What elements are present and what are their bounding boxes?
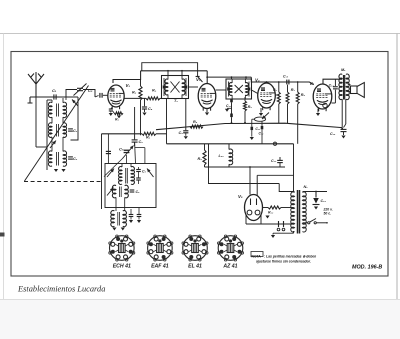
- wire inner left leg: [107, 134, 109, 164]
- capacitor C7a padder: [106, 150, 111, 152]
- wire antenna lead: [35, 84, 37, 97]
- core L3/L4: [56, 124, 58, 137]
- svg-text:ajustarse firmes sin condensad: ajustarse firmes sin condensador.: [256, 260, 311, 264]
- wire T2 right to V3 grid: [252, 90, 258, 94]
- ground stub detector: [227, 107, 232, 109]
- wire T2 riser: [231, 77, 233, 79]
- wire mains lower: [273, 232, 294, 234]
- capacitor C11 pot: [251, 119, 253, 127]
- cathode circle V4: [323, 103, 327, 107]
- wire antenna down lead: [35, 97, 37, 147]
- svg-text:R₅: R₅: [248, 105, 253, 109]
- tube V1 ECH41: [108, 85, 124, 107]
- plug prong 2: [283, 221, 285, 227]
- wire V4 plate top line: [323, 79, 342, 84]
- svg-text:Establecimientos Lucarda: Establecimientos Lucarda: [17, 285, 105, 294]
- IF transformer T2: [226, 79, 252, 99]
- resistor R8 screen feed: [297, 82, 299, 92]
- svg-text:C₃: C₃: [73, 129, 78, 133]
- scan page right edge line: [396, 34, 398, 300]
- svg-text:C₁: C₁: [52, 88, 57, 93]
- band switch contact: [72, 100, 78, 107]
- wire HT feed down: [293, 144, 295, 192]
- capacitor C14: [315, 192, 317, 198]
- wires oscillator: [101, 134, 103, 209]
- switch S1: [303, 222, 308, 224]
- capacitor C14a: [334, 79, 336, 86]
- ground below V4: [317, 109, 319, 113]
- antenna terminal: [28, 97, 33, 103]
- svg-text:EAF 41: EAF 41: [151, 264, 169, 270]
- capacitor C5: [144, 98, 146, 106]
- wire supply mid rail: [167, 143, 294, 145]
- svg-text:C₁₅: C₁₅: [283, 75, 289, 79]
- capacitor C6: [132, 139, 138, 141]
- dashed gang diagonal to C2: [25, 86, 89, 182]
- capacitor C4: [68, 156, 73, 158]
- note text: [251, 252, 263, 257]
- junction dots detector: [231, 122, 233, 124]
- wire filter line: [205, 166, 286, 168]
- power transformer T4: [291, 192, 295, 232]
- capacitor Cg grid series: [99, 93, 100, 98]
- osc switch arrow row2: [107, 188, 114, 196]
- ground below L5: [54, 169, 58, 172]
- coil L2: [63, 102, 67, 117]
- capacitor C12: [261, 121, 263, 126]
- coil L4: [63, 123, 67, 137]
- wire V1 plate line: [113, 71, 141, 83]
- wire V3 plate right: [276, 94, 279, 96]
- svg-text:C₁₀: C₁₀: [226, 104, 232, 108]
- scan page bottom area: [0, 300, 400, 339]
- capacitor C16: [341, 128, 347, 130]
- resistor R1 cathode: [114, 112, 123, 115]
- gang diagonal to C7: [104, 159, 123, 177]
- wires mains: [246, 223, 293, 225]
- capacitor C1: [53, 94, 55, 99]
- capacitor C8a: [136, 169, 141, 171]
- svg-text:R₈: R₈: [301, 93, 306, 97]
- wire plate feed upper: [257, 174, 293, 176]
- tube socket AZ41: [218, 236, 243, 261]
- capacitor C8b: [136, 177, 141, 179]
- core L11/L12: [117, 212, 119, 226]
- ground below L11: [112, 228, 116, 231]
- resistor R7 grid leak: [287, 85, 289, 92]
- svg-text:C₉: C₉: [136, 190, 141, 194]
- wire R2 bottom: [140, 100, 142, 135]
- capacitor C7 trimmer: [124, 149, 130, 151]
- wire T2 left to V2: [216, 89, 226, 91]
- coil L1: [48, 102, 52, 117]
- svg-text:V₁: V₁: [126, 83, 131, 88]
- resistor R5: [244, 97, 246, 101]
- wire V1 bottom to osc: [134, 107, 136, 139]
- V5 filament circles: [247, 210, 252, 215]
- svg-text:C₁₆: C₁₆: [330, 132, 336, 136]
- ground below V2: [206, 109, 208, 113]
- junction filter: [249, 166, 251, 168]
- tube socket EL41: [183, 236, 208, 261]
- svg-text:V₅: V₅: [238, 194, 243, 199]
- resistor R10: [263, 207, 269, 209]
- svg-text:T₁: T₁: [174, 99, 178, 103]
- scan left margin line: [3, 34, 5, 300]
- svg-text:M₁: M₁: [341, 68, 346, 72]
- band switch arrow (antenna): [50, 141, 56, 149]
- core L9/L10: [119, 187, 121, 198]
- capacitor C9pad2: [137, 214, 142, 216]
- svg-text:R₆: R₆: [273, 88, 278, 92]
- ground V5 side: [265, 216, 269, 219]
- svg-text:R₉: R₉: [198, 157, 203, 161]
- wire C6 to box: [134, 142, 137, 163]
- svg-text:C₅: C₅: [148, 107, 153, 111]
- IF transformer T1: [162, 76, 189, 99]
- resistor R3: [142, 132, 156, 135]
- svg-text:L₁₀: L₁₀: [219, 154, 225, 158]
- core L5/L6: [56, 152, 58, 166]
- coil L5: [48, 151, 52, 166]
- svg-text:AZ 41: AZ 41: [222, 264, 237, 270]
- svg-text:C₈: C₈: [142, 170, 147, 174]
- wire V3 riser: [266, 82, 268, 83]
- wire B+ top rail: [141, 70, 208, 72]
- volume pot P1: [254, 117, 265, 121]
- svg-text:R₃: R₃: [146, 136, 151, 140]
- svg-text:ECH 41: ECH 41: [113, 264, 131, 270]
- svg-text:V₂: V₂: [196, 77, 201, 82]
- wire AVC rail: [156, 123, 342, 130]
- junction: [341, 128, 343, 130]
- core L7/L8: [125, 168, 127, 184]
- ground below L12: [121, 228, 125, 231]
- svg-text:C₂: C₂: [88, 88, 93, 93]
- wire rail step 2: [206, 71, 208, 84]
- capacitor C10a series: [230, 99, 233, 102]
- scan ink blob left edge: [0, 233, 5, 237]
- ground mains: [272, 233, 274, 234]
- svg-text:NOTA: NOTA: [252, 255, 262, 259]
- capacitor C9: [185, 127, 187, 130]
- svg-text:MOD. 196-B: MOD. 196-B: [352, 265, 382, 271]
- wire C7 drop: [126, 155, 128, 164]
- coil L10: [125, 185, 129, 198]
- choke L13: [229, 149, 233, 165]
- wire V1 grid-cap over line: [142, 63, 198, 76]
- svg-text:R₆: R₆: [193, 120, 198, 124]
- variable capacitor C2: [77, 87, 83, 89]
- resistor R9: [204, 144, 206, 150]
- ground below L6: [61, 169, 65, 172]
- plug prong 1: [278, 221, 280, 227]
- svg-text:: Las perillas marcadas ⊕ debe: : Las perillas marcadas ⊕ deben: [264, 255, 316, 259]
- svg-text:50 c.: 50 c.: [324, 212, 332, 216]
- schematic border frame: [11, 52, 388, 277]
- coil L6: [63, 151, 67, 166]
- junction dots on rail: [167, 70, 169, 72]
- svg-text:C₁₁: C₁₁: [255, 127, 261, 131]
- tube V5 AZ41: [245, 195, 263, 221]
- resistor R4: [146, 97, 160, 100]
- capacitor C5a cathode: [111, 108, 113, 109]
- coil L9: [112, 185, 116, 198]
- wires V5: [245, 215, 247, 224]
- coil L8: [131, 167, 134, 185]
- osc switch arrows row1: [107, 169, 114, 178]
- capacitor C9pad: [129, 214, 134, 216]
- wire C6 branch right: [135, 147, 145, 149]
- resistor R6: [190, 125, 203, 128]
- tube socket EAF41: [148, 236, 173, 261]
- capacitor C3: [68, 128, 73, 130]
- coil L11: [111, 211, 115, 227]
- wire T4 HT line: [303, 191, 328, 193]
- wires antenna coil stack: [46, 100, 48, 170]
- wire T1 to V2 grid: [189, 86, 199, 88]
- wire coil stack right leg: [71, 97, 79, 140]
- capacitor C10b series: [230, 114, 233, 118]
- oscillator box: [105, 164, 156, 208]
- svg-text:EL 41: EL 41: [188, 264, 202, 270]
- coil L3: [48, 123, 52, 137]
- tube socket ECH41: [110, 236, 135, 261]
- svg-text:C₁₄: C₁₄: [321, 199, 327, 203]
- capacitor C8c: [130, 189, 135, 191]
- speaker LS: [351, 86, 358, 94]
- ground below V3: [260, 108, 262, 113]
- coil L12: [123, 211, 127, 227]
- wire T1 bottom right leg / C9 feed: [185, 99, 187, 128]
- resistor R6 plate load: [278, 82, 280, 92]
- svg-text:V₃: V₃: [255, 78, 260, 83]
- wire C2 connections: [66, 90, 77, 98]
- svg-text:C₄: C₄: [73, 157, 78, 161]
- svg-text:R₇: R₇: [291, 88, 296, 92]
- svg-text:C₁₀: C₁₀: [271, 159, 277, 163]
- wire rail step 3: [251, 77, 313, 84]
- wire detector rail: [102, 133, 143, 135]
- wire T3 secondary to speaker: [348, 84, 351, 86]
- wire stage feed left: [209, 144, 280, 184]
- svg-text:N₁: N₁: [304, 185, 309, 189]
- capacitor C15 coupling (series): [286, 80, 287, 85]
- svg-text:R₄: R₄: [152, 89, 157, 93]
- ground below R1: [118, 113, 120, 115]
- svg-text:C₁₄: C₁₄: [329, 84, 335, 88]
- tube V3 EAF41: [258, 83, 276, 108]
- wire T1 bottom left leg: [166, 99, 168, 144]
- tube V4 EL41: [313, 84, 332, 109]
- antenna: [28, 72, 44, 84]
- svg-text:C₆: C₆: [139, 140, 144, 144]
- wire to rectifier plate 2: [279, 184, 294, 192]
- dashed tuning gang link: [24, 181, 102, 183]
- svg-text:C₇: C₇: [119, 147, 124, 152]
- ground below C5: [144, 109, 146, 112]
- wire T1 riser: [167, 71, 169, 76]
- svg-text:R₂: R₂: [132, 91, 137, 95]
- V2 top cap: [196, 76, 200, 78]
- svg-text:C₉: C₉: [179, 131, 184, 135]
- coil L7: [119, 167, 122, 185]
- output transformer T3: [339, 74, 342, 100]
- capacitor C10: [277, 159, 283, 161]
- adjust mark mid rail: [273, 142, 276, 145]
- svg-text:R₁₀: R₁₀: [268, 211, 274, 215]
- grid coupling to V1: [103, 94, 108, 96]
- wire T3 bottom legs: [341, 99, 343, 127]
- svg-text:C₁₂: C₁₂: [259, 132, 265, 136]
- core L1/L2: [56, 104, 58, 117]
- tube V2 EAF41: [198, 84, 216, 109]
- scan page top edge line: [0, 33, 400, 35]
- svg-text:V₄: V₄: [310, 81, 315, 86]
- resistor R2: [140, 80, 142, 87]
- V5 plates: [250, 199, 252, 206]
